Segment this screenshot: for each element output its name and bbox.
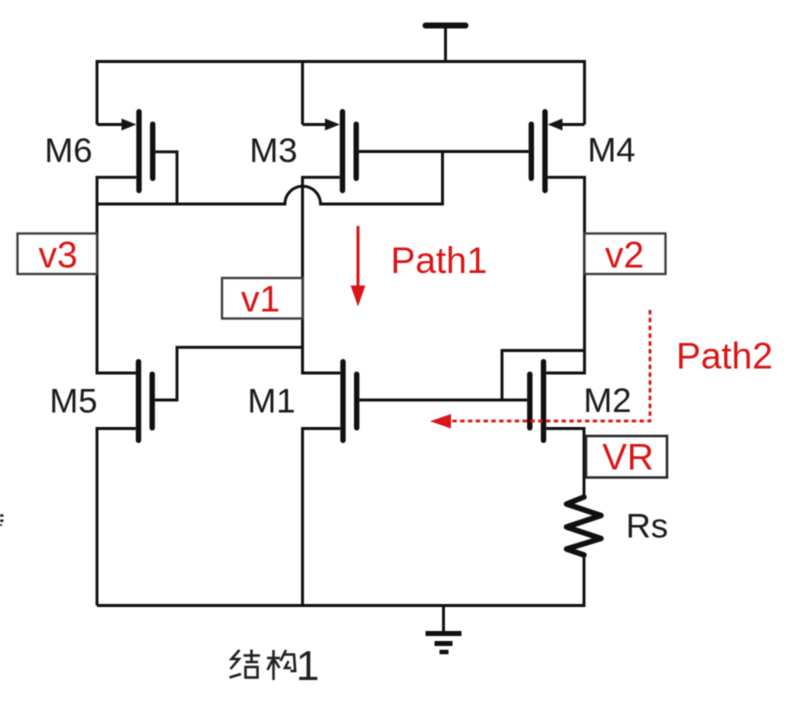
- caption hanzi jie (结) drawn strokes: [230, 650, 261, 678]
- transistor M6: [97, 112, 153, 191]
- wire M2 bottom lead down to resistor: [546, 429, 584, 498]
- wire M5 gate link up and over to center column: [155, 347, 303, 400]
- svg-text:v3: v3: [38, 235, 77, 276]
- wire M3 bottom lead + center column down to M1 top lead: [303, 177, 341, 373]
- resistor Rs: [567, 497, 602, 555]
- svg-text:1: 1: [296, 642, 319, 689]
- node v2 box: [585, 234, 666, 275]
- svg-text:M3: M3: [250, 132, 298, 170]
- stray partial glyph at left edge: [0, 516, 4, 526]
- wire top rail with left and right rail drops: [97, 62, 585, 125]
- transistor M2: [530, 362, 544, 441]
- svg-text:M6: M6: [45, 132, 93, 170]
- ground: [426, 606, 462, 653]
- svg-text:M1: M1: [248, 383, 296, 421]
- annotation Path2 dashed route with arrow: [430, 310, 650, 429]
- annotation Path1 arrow: [351, 226, 366, 307]
- wire node row horizontal with crossover hop and stub up to gate line: [97, 152, 443, 205]
- transistor M1: [343, 362, 357, 441]
- svg-text:M4: M4: [588, 132, 636, 170]
- wire M3 top drop: [301, 62, 304, 125]
- caption hanzi gou (构) drawn strokes: [267, 650, 295, 680]
- svg-text:Path1: Path1: [391, 240, 488, 281]
- svg-text:M2: M2: [584, 382, 632, 420]
- svg-text:VR: VR: [602, 437, 653, 478]
- wire M1 bottom lead + center column down to bottom rail: [303, 429, 341, 606]
- svg-text:v2: v2: [605, 235, 644, 276]
- transistor M3: [303, 112, 357, 191]
- svg-text:v1: v1: [241, 279, 280, 320]
- wire M6 bottom lead + left rail down to M5 top lead: [97, 177, 136, 373]
- wire M2 gate riser to right column: [502, 351, 585, 401]
- transistor M4: [531, 112, 584, 191]
- power VDD symbol: [426, 26, 466, 62]
- wire M6 gate link to node row: [155, 152, 177, 204]
- node v3 box: [18, 234, 98, 275]
- wire M5 bottom lead + left rail down to bottom rail: [97, 429, 136, 606]
- wire gate line M1 to M2: [359, 399, 527, 402]
- node VR box: [586, 436, 667, 478]
- svg-text:Rs: Rs: [626, 508, 668, 546]
- transistor M5: [97, 362, 152, 441]
- node v1 box: [222, 278, 303, 319]
- wire gate line M3 to M4: [359, 150, 529, 153]
- wire resistor bottom + bottom rail: [97, 553, 584, 606]
- svg-text:Path2: Path2: [676, 336, 773, 377]
- svg-text:M5: M5: [50, 383, 98, 421]
- wire M4 bottom lead + right column down to M2 top lead: [546, 177, 584, 373]
